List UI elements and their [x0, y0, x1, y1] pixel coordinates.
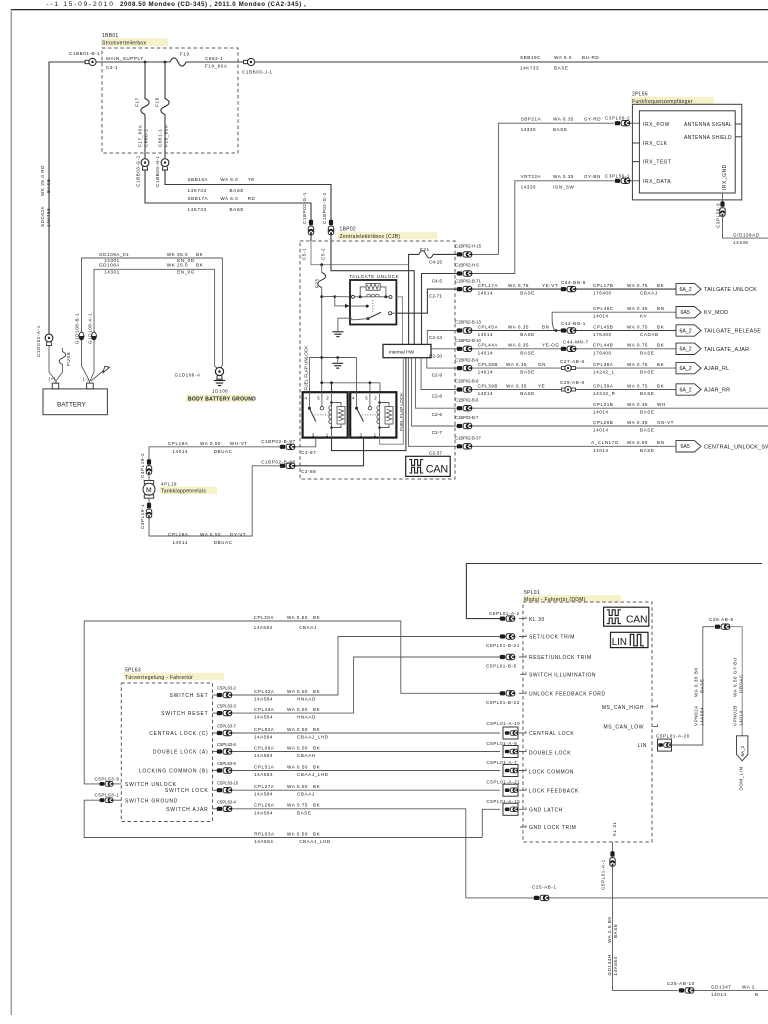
wire CPL30A switch unlock rail	[84, 621, 500, 784]
svg-text:14014: 14014	[173, 449, 189, 454]
svg-text:GY-BN: GY-BN	[584, 174, 601, 179]
svg-text:C1BP02-G-1: C1BP02-G-1	[302, 192, 307, 224]
svg-text:YE-OG: YE-OG	[542, 343, 560, 348]
svg-text:IRX_TEST: IRX_TEST	[643, 160, 671, 166]
svg-text:CBAAJ: CBAAJ	[297, 792, 315, 797]
node junction F17	[144, 61, 147, 64]
svg-text:C5PL63-4: C5PL63-4	[217, 799, 237, 804]
svg-text:WA 0.35: WA 0.35	[553, 174, 574, 179]
svg-text:14014: 14014	[478, 370, 494, 375]
svg-text:C2-88: C2-88	[301, 469, 316, 474]
svg-text:GD134H: GD134H	[607, 954, 612, 975]
svg-text:WA 6.0: WA 6.0	[554, 55, 572, 60]
svg-text:6A5: 6A5	[681, 444, 690, 450]
svg-text:WA 0.35: WA 0.35	[553, 116, 574, 121]
svg-text:WA 0.35 BK: WA 0.35 BK	[694, 667, 699, 697]
coil bumps	[367, 294, 380, 297]
svg-text:C1BP02-H-5: C1BP02-H-5	[455, 263, 479, 268]
svg-text:MS_CAN_HIGH: MS_CAN_HIGH	[602, 705, 644, 711]
svg-text:CPL36B: CPL36B	[478, 362, 498, 367]
svg-text:WA 0.50: WA 0.50	[287, 764, 308, 769]
svg-text:LOCKING COMMON (B): LOCKING COMMON (B)	[139, 769, 209, 775]
svg-text:C5PL01-B-5: C5PL01-B-5	[486, 664, 517, 669]
svg-text:C5PL63-1: C5PL63-1	[94, 793, 119, 798]
svg-text:ANTENNA SHIELD: ANTENNA SHIELD	[684, 135, 732, 141]
svg-text:14301: 14301	[104, 269, 120, 274]
logo CAN	[406, 456, 451, 476]
svg-text:14014: 14014	[593, 428, 609, 433]
svg-text:Türverriegelung - Fahrertür: Türverriegelung - Fahrertür	[125, 675, 193, 681]
svg-text:WA 0.50: WA 0.50	[287, 831, 308, 836]
svg-text:WA 0.50: WA 0.50	[287, 727, 308, 732]
svg-text:IRX_GND: IRX_GND	[722, 164, 728, 190]
svg-text:C2-37: C2-37	[429, 450, 442, 456]
wire RPL63A labels	[254, 831, 331, 844]
connector C27-AB-6	[562, 365, 576, 371]
svg-text:C25-AB-1: C25-AB-1	[532, 884, 557, 889]
svg-text:KL 30: KL 30	[529, 617, 545, 623]
svg-text:C1BP02-B-9: C1BP02-B-9	[455, 357, 479, 362]
svg-text:C5PL63-3: C5PL63-3	[217, 703, 237, 708]
svg-text:BN: BN	[657, 306, 664, 311]
svg-text:WA 0.50: WA 0.50	[627, 440, 648, 445]
svg-text:CPL06A: CPL06A	[254, 745, 275, 750]
svg-text:CBAAJ_LHD: CBAAJ_LHD	[299, 839, 331, 844]
svg-text:HNAAD: HNAAD	[297, 715, 316, 720]
wire switch output to C2-71	[396, 289, 457, 313]
svg-text:14014: 14014	[173, 540, 189, 545]
svg-text:WH: WH	[657, 402, 666, 407]
ground 1D108 body battery ground	[214, 381, 226, 386]
wire relay2 pin3 to C2-88	[294, 438, 364, 466]
svg-text:C5PL01-B-22: C5PL01-B-22	[486, 700, 520, 705]
svg-text:4: 4	[305, 396, 308, 401]
svg-text:DOUBLE LOCK (A): DOUBLE LOCK (A)	[153, 750, 209, 756]
svg-text:C44-MN-7: C44-MN-7	[563, 340, 589, 345]
svg-text:SWITCH AJAR: SWITCH AJAR	[166, 807, 208, 813]
svg-text:C5PL63-9: C5PL63-9	[94, 776, 119, 781]
svg-text:C1BP02-B-87: C1BP02-B-87	[261, 439, 295, 444]
svg-text:176400: 176400	[593, 291, 612, 296]
svg-text:1BB01: 1BB01	[102, 33, 119, 39]
svg-text:C5PL01-A-2: C5PL01-A-2	[489, 611, 520, 616]
motor 4PL19 Tankklappenrelais	[148, 474, 150, 481]
svg-text:C2-71: C2-71	[429, 294, 442, 300]
wire CPL42A set/lock trim	[232, 637, 500, 696]
svg-text:SWITCH LOCK: SWITCH LOCK	[165, 788, 209, 794]
svg-text:C1BP02-G-2: C1BP02-G-2	[322, 192, 327, 224]
svg-text:BASE: BASE	[553, 127, 567, 132]
battery	[43, 389, 107, 415]
arrow 6A5 KV_MOD	[676, 307, 701, 318]
svg-text:C660-1: C660-1	[144, 129, 149, 147]
wire row CPL17A / CPL17B tailgate unlock	[472, 288, 676, 290]
svg-text:BK: BK	[313, 727, 321, 732]
svg-text:C3PL56-2: C3PL56-2	[605, 116, 630, 121]
svg-text:VPN02B: VPN02B	[733, 705, 738, 726]
svg-text:SDC02A: SDC02A	[40, 205, 45, 227]
svg-text:BASE: BASE	[520, 391, 534, 396]
svg-text:14335: 14335	[733, 240, 749, 245]
svg-text:F19_80A: F19_80A	[205, 64, 228, 69]
svg-text:GN: GN	[538, 362, 546, 367]
svg-text:YE: YE	[538, 383, 545, 388]
svg-text:(+): (+)	[49, 377, 56, 382]
svg-text:DBUAC: DBUAC	[214, 540, 233, 545]
svg-text:EN_0G: EN_0G	[177, 269, 195, 274]
connector C3PL56-3	[720, 201, 725, 216]
svg-text:C3PL56-3: C3PL56-3	[716, 203, 721, 228]
svg-text:M: M	[146, 487, 152, 494]
svg-text:6A_2: 6A_2	[680, 387, 692, 393]
svg-text:BK: BK	[657, 343, 665, 348]
svg-text:LIN: LIN	[638, 743, 647, 749]
svg-text:BODY BATTERY GROUND: BODY BATTERY GROUND	[188, 396, 256, 402]
svg-text:CPL26A: CPL26A	[254, 803, 275, 808]
svg-text:GY-VT: GY-VT	[230, 532, 246, 537]
svg-text:GND LATCH: GND LATCH	[529, 808, 563, 814]
svg-text:C4PL19-2: C4PL19-2	[140, 453, 145, 478]
svg-text:1BP02: 1BP02	[340, 227, 357, 233]
svg-text:C1BP02-H-15: C1BP02-H-15	[455, 244, 482, 249]
svg-text:SBB16A: SBB16A	[188, 177, 209, 182]
svg-text:C1BB03-J-1: C1BB03-J-1	[242, 70, 273, 75]
svg-text:C2-7: C2-7	[432, 430, 443, 436]
fuse FUSE	[62, 348, 64, 352]
svg-text:BASE: BASE	[640, 350, 654, 355]
svg-text:YE-VT: YE-VT	[542, 283, 558, 288]
wire CPL51A lock common	[232, 770, 500, 772]
box internal HW	[383, 344, 431, 357]
svg-text:VRT22A: VRT22A	[521, 174, 542, 179]
wire SBP21A to receiver	[630, 122, 639, 124]
svg-text:1D108: 1D108	[212, 389, 228, 394]
wire main supply horizontal	[49, 61, 170, 63]
svg-text:SBB19C: SBB19C	[520, 55, 541, 60]
svg-text:WH-VT: WH-VT	[230, 441, 248, 446]
wire VRT22A riser from C4-5	[471, 181, 614, 274]
svg-text:BK: BK	[657, 362, 665, 367]
svg-text:RPL63A: RPL63A	[254, 831, 275, 836]
svg-text:14A584: 14A584	[254, 753, 273, 758]
svg-text:WA 0.50: WA 0.50	[200, 532, 221, 537]
svg-text:F18_60A: F18_60A	[164, 124, 169, 147]
svg-text:WA 0.50 GY-BU: WA 0.50 GY-BU	[733, 657, 738, 697]
svg-text:BK: BK	[313, 784, 321, 789]
svg-text:CBAAH: CBAAH	[297, 753, 316, 758]
svg-text:DDM_LIN: DDM_LIN	[739, 766, 744, 790]
arrow 6A5 central unlock	[676, 441, 701, 452]
svg-text:BASE: BASE	[640, 448, 654, 453]
wire CPL43A reset/unlock trim	[232, 657, 500, 713]
wire relay1 pin1 to internal HW	[332, 358, 406, 451]
svg-text:CPL27A: CPL27A	[254, 784, 275, 789]
svg-text:14A584: 14A584	[254, 772, 273, 777]
svg-text:WA 0.35: WA 0.35	[508, 343, 529, 348]
svg-text:C5PL63-5: C5PL63-5	[217, 761, 237, 766]
arrow 6A_2 tailgate unlock	[676, 283, 701, 294]
svg-text:FUSE: FUSE	[66, 352, 71, 366]
ground in CJB lower	[337, 358, 339, 363]
svg-text:CENTRAL LOCK (C): CENTRAL LOCK (C)	[149, 731, 208, 737]
svg-text:WA 0.50: WA 0.50	[287, 615, 308, 620]
logo CAN DDM	[604, 607, 649, 626]
svg-text:C2-9: C2-9	[432, 373, 443, 379]
wire row A_CLN17G central unlock	[472, 445, 676, 447]
svg-text:KL 31: KL 31	[612, 821, 617, 836]
svg-text:BASE: BASE	[700, 679, 705, 693]
svg-text:C5PL01-A-20: C5PL01-A-20	[656, 733, 690, 738]
svg-text:BASE: BASE	[554, 66, 568, 71]
ground in CJB upper	[332, 332, 343, 337]
wire row CPL31B	[472, 407, 768, 409]
svg-text:KV_MOD: KV_MOD	[704, 310, 728, 316]
svg-text:14A584: 14A584	[613, 956, 618, 975]
svg-text:C5PL63-10: C5PL63-10	[217, 780, 239, 785]
svg-text:WA 0.35: WA 0.35	[506, 383, 527, 388]
svg-text:CPL45B: CPL45B	[593, 324, 613, 329]
svg-text:C5PL63-2: C5PL63-2	[217, 685, 237, 690]
svg-text:BK: BK	[196, 252, 204, 257]
svg-text:WA 6.0: WA 6.0	[220, 196, 238, 201]
svg-text:C28-AB-6: C28-AB-6	[560, 380, 585, 385]
svg-text:6A_2: 6A_2	[680, 328, 692, 334]
svg-text:14242_L: 14242_L	[593, 370, 615, 375]
wire row CPL45A / CPL45B tailgate release	[472, 330, 676, 332]
svg-text:C3PL56-1: C3PL56-1	[605, 173, 630, 178]
svg-text:BASE: BASE	[640, 410, 654, 415]
svg-text:WK 35.0: WK 35.0	[167, 252, 188, 257]
svg-text:14014: 14014	[478, 332, 494, 337]
svg-text:BK: BK	[313, 831, 321, 836]
wire ground net relays	[309, 357, 356, 359]
svg-text:C2-13: C2-13	[429, 335, 442, 341]
connector C5PL01-A-1	[610, 851, 615, 866]
svg-text:14014: 14014	[593, 410, 609, 415]
svg-text:C5PL01-B-21: C5PL01-B-21	[486, 643, 520, 648]
svg-text:2008.50 Mondeo (CD-345) , 2011: 2008.50 Mondeo (CD-345) , 2011.0 Mondeo …	[120, 1, 306, 8]
svg-text:14014: 14014	[739, 710, 744, 726]
svg-text:CPL36A: CPL36A	[593, 362, 614, 367]
svg-text:CPL26B: CPL26B	[593, 420, 613, 425]
wire to battery plus	[49, 346, 56, 384]
body arrow	[91, 371, 104, 382]
wire LIN to C25-AB-8	[672, 627, 715, 745]
svg-text:6A_2: 6A_2	[740, 745, 745, 756]
svg-text:VPN02A: VPN02A	[694, 705, 699, 726]
svg-text:IRX_CLK: IRX_CLK	[643, 141, 668, 147]
svg-text:Stromverteilerbox: Stromverteilerbox	[102, 40, 146, 46]
node junction F18	[164, 61, 167, 64]
svg-text:F25: F25	[315, 278, 320, 288]
svg-text:BASE: BASE	[230, 188, 244, 193]
svg-text:WA 0.75: WA 0.75	[287, 803, 308, 808]
wire relay common to ground	[338, 318, 352, 331]
svg-text:IRX_POW: IRX_POW	[643, 122, 670, 128]
svg-text:WA 0.35: WA 0.35	[627, 402, 648, 407]
svg-text:Tankklappenrelais: Tankklappenrelais	[161, 489, 206, 495]
svg-text:SBP21A: SBP21A	[521, 116, 542, 121]
wire C5-2 feed	[331, 241, 414, 344]
svg-text:WA 2.5 BK: WA 2.5 BK	[607, 916, 612, 943]
svg-text:BASE: BASE	[46, 179, 51, 193]
header rule	[11, 9, 768, 11]
svg-text:CAN: CAN	[426, 464, 448, 476]
svg-text:176400: 176400	[593, 350, 612, 355]
wire SBB16A	[165, 170, 331, 220]
wire CPL82A central lock	[232, 732, 500, 734]
svg-text:WA 0.50: WA 0.50	[287, 707, 308, 712]
svg-text:14014: 14014	[478, 391, 494, 396]
wire C25-AB-1 row	[466, 897, 768, 899]
connector C5PL01-B-5	[500, 654, 515, 659]
svg-text:C3-1: C3-1	[106, 65, 118, 70]
svg-text:TAILGATE UNLOCK: TAILGATE UNLOCK	[349, 274, 400, 279]
wire IRX_GND down	[722, 193, 724, 202]
svg-text:BK: BK	[657, 283, 665, 288]
svg-text:TAILGATE_AJAR: TAILGATE_AJAR	[704, 347, 749, 353]
svg-text:BU-RD: BU-RD	[582, 55, 599, 60]
svg-text:C1DC02-A-1: C1DC02-A-1	[36, 325, 41, 357]
svg-text:C44-BN-1: C44-BN-1	[561, 321, 586, 326]
svg-text:GD108A_01: GD108A_01	[99, 252, 129, 257]
wire relay feed line	[322, 382, 380, 384]
wire SBB17A	[145, 170, 311, 220]
svg-text:C5-1: C5-1	[302, 248, 307, 260]
svg-text:WA 0.35: WA 0.35	[506, 362, 527, 367]
svg-text:BK: BK	[313, 745, 321, 750]
svg-text:BK: BK	[657, 324, 665, 329]
svg-text:WA 0.50: WA 0.50	[200, 441, 221, 446]
svg-text:LIN: LIN	[612, 637, 627, 648]
svg-text:BATTERY: BATTERY	[57, 402, 87, 409]
wire C5-1 feed	[311, 241, 409, 265]
svg-text:WA 0.75: WA 0.75	[627, 324, 648, 329]
svg-text:WA 0.50: WA 0.50	[287, 689, 308, 694]
logo LIN DDM	[611, 632, 649, 647]
svg-text:5: 5	[365, 396, 368, 401]
svg-text:SWITCH SET: SWITCH SET	[170, 693, 209, 699]
svg-text:C1BB03-G-1: C1BB03-G-1	[136, 155, 141, 187]
svg-text:C1BP02-B-37: C1BP02-B-37	[455, 436, 482, 441]
svg-text:LOCK FEEDBACK: LOCK FEEDBACK	[529, 789, 579, 795]
svg-text:BK: BK	[313, 803, 321, 808]
svg-text:CPL17A: CPL17A	[478, 283, 499, 288]
wire switch ground rail	[84, 800, 482, 837]
arrow 6A_2 tailgate ajar	[676, 343, 701, 354]
svg-text:GD108A: GD108A	[99, 263, 120, 268]
connector C1BB03-H-1	[161, 159, 169, 170]
wire KL30 feed	[466, 564, 762, 619]
svg-text:YE: YE	[248, 177, 255, 182]
svg-text:14014: 14014	[593, 314, 609, 319]
svg-text:14K733: 14K733	[520, 66, 539, 71]
svg-text:BASE: BASE	[613, 924, 618, 938]
svg-text:WA 0.75: WA 0.75	[627, 362, 648, 367]
svg-text:C5PL63-6: C5PL63-6	[217, 742, 237, 747]
svg-text:RD: RD	[248, 196, 256, 201]
svg-text:C5PL01-A-10: C5PL01-A-10	[486, 721, 520, 726]
arrow 6A_2 ajar RL	[676, 362, 701, 373]
DDM left pin labels	[529, 617, 606, 831]
svg-text:6A_2: 6A_2	[680, 366, 692, 372]
svg-text:MAIN_SUPPLY: MAIN_SUPPLY	[106, 56, 144, 61]
wire CPL26A switch ajar	[232, 809, 466, 898]
svg-text:CPL45A: CPL45A	[478, 324, 499, 329]
arrow 6A_2 DDM_LIN	[737, 736, 748, 761]
svg-text:GD134T: GD134T	[711, 985, 732, 990]
svg-text:C27-AB-6: C27-AB-6	[560, 359, 585, 364]
wire G1D108A	[94, 269, 218, 369]
svg-text:C661-1: C661-1	[158, 129, 163, 147]
svg-text:C25-AB-10: C25-AB-10	[667, 981, 695, 986]
svg-text:C2-10: C2-10	[429, 353, 442, 359]
svg-text:14014: 14014	[478, 350, 494, 355]
svg-text:C25-AB-8: C25-AB-8	[709, 617, 734, 622]
svg-text:CBAAJ_LHD: CBAAJ_LHD	[297, 735, 329, 740]
svg-text:CPL82A: CPL82A	[254, 727, 275, 732]
svg-text:SWITCH ILLUMINATION: SWITCH ILLUMINATION	[529, 673, 596, 679]
svg-text:internal HW: internal HW	[389, 350, 415, 356]
svg-text:FUEL FLAP UNLOCK: FUEL FLAP UNLOCK	[304, 345, 309, 391]
arrow 6A_2 ajar RR	[676, 384, 701, 395]
svg-text:SWITCH RESET: SWITCH RESET	[161, 711, 208, 717]
arrow 6A_2 tailgate release	[676, 325, 701, 336]
svg-text:F17: F17	[135, 97, 140, 107]
svg-text:DOUBLE LOCK: DOUBLE LOCK	[529, 750, 571, 756]
svg-text:WA 0.75: WA 0.75	[508, 283, 529, 288]
svg-text:CPL31B: CPL31B	[593, 402, 613, 407]
switch in relay	[350, 305, 367, 307]
connector C5PL01-B-21	[500, 634, 515, 639]
svg-text:AJAR_RL: AJAR_RL	[704, 366, 729, 372]
svg-text:CPL45C: CPL45C	[593, 306, 614, 311]
wire left battery rail	[49, 62, 88, 334]
svg-text:GN-VT: GN-VT	[657, 420, 674, 425]
svg-text:C1BP02-B-7: C1BP02-B-7	[455, 415, 479, 420]
wire row CPL45C KV_MOD	[552, 312, 676, 330]
svg-text:14K733: 14K733	[188, 207, 207, 212]
wire row CPL39B / CPL39A ajar RR	[472, 389, 676, 391]
svg-text:GY-RD: GY-RD	[584, 116, 601, 121]
svg-text:4PL19: 4PL19	[161, 481, 177, 486]
svg-text:MS_CAN_LOW: MS_CAN_LOW	[603, 725, 644, 731]
svg-text:G1D108-A-1: G1D108-A-1	[87, 313, 92, 344]
svg-text:BK: BK	[313, 707, 321, 712]
svg-text:RESET/UNLOCK TRIM: RESET/UNLOCK TRIM	[529, 655, 592, 661]
svg-text:WA 0.35: WA 0.35	[627, 420, 648, 425]
svg-text:2: 2	[374, 396, 377, 401]
svg-text:GND LOCK TRIM: GND LOCK TRIM	[529, 825, 576, 831]
svg-text:BASE: BASE	[640, 370, 654, 375]
svg-text:14242_R: 14242_R	[593, 391, 616, 396]
svg-text:DBUAC: DBUAC	[214, 449, 233, 454]
svg-text:14335: 14335	[521, 127, 537, 132]
svg-text:G/D138AD: G/D138AD	[733, 232, 760, 237]
wire relay2 pin1 to internal HW	[380, 358, 404, 445]
svg-text:14A584: 14A584	[254, 839, 273, 844]
svg-text:5: 5	[317, 396, 320, 401]
wire CPL06A double lock	[232, 751, 500, 753]
svg-text:WA 0.75: WA 0.75	[627, 283, 648, 288]
svg-text:WA 0.75: WA 0.75	[627, 343, 648, 348]
svg-text:LOCK COMMON: LOCK COMMON	[529, 770, 574, 776]
svg-text:IGN_SW: IGN_SW	[553, 185, 575, 190]
svg-text:14A584: 14A584	[254, 810, 273, 815]
svg-text:CENTRAL LOCK: CENTRAL LOCK	[529, 731, 574, 737]
svg-text:WK 25.0 RD: WK 25.0 RD	[40, 165, 45, 196]
svg-text:BASE: BASE	[640, 428, 654, 433]
